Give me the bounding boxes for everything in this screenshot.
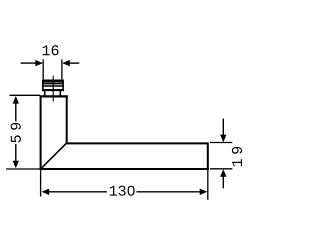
bend chamfer diagonal <box>41 143 66 168</box>
dim 59 top extension line <box>10 94 41 96</box>
dim 19 top arrow pointing down <box>222 119 224 136</box>
handle shank top edge <box>40 95 68 97</box>
dim 130 right extension (bar edge extended) <box>207 170 209 200</box>
handle shank right edge joining lever top edge <box>67 96 208 144</box>
knurl line 2 <box>42 85 63 87</box>
dim 19 top extension line <box>210 142 232 144</box>
dim 16 right extension line <box>61 59 63 79</box>
dim 19 value label (rotated) <box>232 147 242 166</box>
lever bar right end edge <box>207 142 209 170</box>
spindle neck right side <box>59 91 61 96</box>
spindle cap right side <box>62 80 64 91</box>
dim 59 value label (rotated) <box>11 123 21 143</box>
knurl line 1 <box>42 83 63 85</box>
dim 130 value label <box>110 186 135 196</box>
dim 59 line upper segment with up arrow <box>15 103 17 121</box>
dim 16 right arrow <box>69 62 79 64</box>
lever bar bottom edge <box>40 168 209 170</box>
dim 16 left arrow <box>21 62 36 64</box>
knurled spindle cap top bar <box>42 80 64 83</box>
dim 130 right arrow segment <box>136 191 200 193</box>
centerline through spindle <box>52 76 54 102</box>
dim 59 bottom extension line <box>6 168 40 170</box>
handle shank left edge <box>40 96 42 170</box>
dim 59 line lower segment with down arrow <box>15 144 17 161</box>
dim 19 bottom arrow pointing up <box>222 176 224 188</box>
dim 19 bottom extension line <box>210 168 232 170</box>
dim 130 left arrow segment <box>49 191 107 193</box>
spindle cap bottom bar <box>42 89 64 91</box>
dim 16 left extension line <box>42 59 44 79</box>
spindle cap left side <box>42 80 44 91</box>
spindle neck left side <box>44 91 46 96</box>
dim 16 value label <box>43 45 59 55</box>
dim 130 left extension (shank edge extended) <box>40 170 42 197</box>
